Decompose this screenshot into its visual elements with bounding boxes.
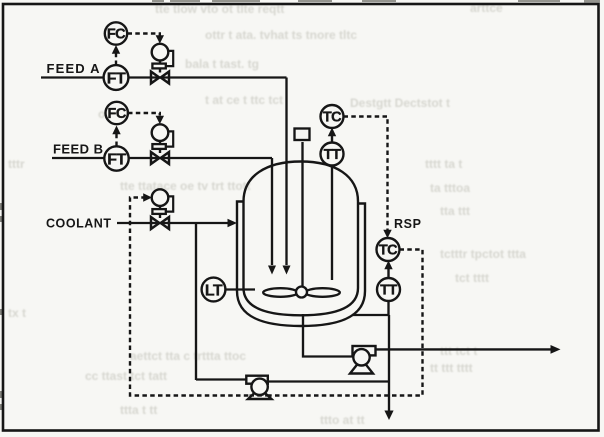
- svg-text:FT: FT: [107, 71, 126, 88]
- reactor vessel shell: [244, 162, 359, 316]
- wire LT tap: [226, 288, 256, 290]
- svg-text:tttr: tttr: [8, 157, 25, 171]
- dashed signal fragment over pump P1 base: [250, 394, 272, 396]
- svg-text:t at ce t ttc tct: t at ce t ttc tct: [205, 93, 283, 107]
- instrument LT level transmitter: [202, 278, 226, 302]
- dashed signal FC2 to valve V2: [128, 113, 160, 116]
- svg-text:FEED B: FEED B: [53, 142, 103, 157]
- svg-text:COOLANT: COOLANT: [46, 217, 111, 231]
- control valve V2 (feed B): [151, 124, 173, 164]
- agitator shaft: [301, 142, 303, 287]
- agitator impeller left blade: [263, 288, 298, 297]
- wire pump P1 discharge: [196, 378, 247, 380]
- instrument FC1: [105, 22, 127, 44]
- svg-text:TC: TC: [379, 243, 398, 259]
- svg-text:tta ttt: tta ttt: [440, 204, 470, 218]
- svg-text:Destgtt Dectstot t: Destgtt Dectstot t: [350, 96, 450, 110]
- control valve V1 (feed A): [151, 44, 173, 84]
- agitator impeller right blade: [305, 288, 340, 297]
- wire feed A horizontal pipe: [41, 76, 287, 78]
- wire pump P2 discharge product line: [376, 348, 553, 350]
- svg-text:TT: TT: [324, 147, 341, 163]
- instrument FC2: [106, 102, 128, 124]
- svg-text:cc ttast tct tatt: cc ttast tct tatt: [85, 369, 167, 383]
- wire reactor bottom outlet: [303, 314, 354, 357]
- svg-text:ta tttoa: ta tttoa: [430, 181, 470, 195]
- svg-text:ttt tct t: ttt tct t: [440, 344, 477, 358]
- cut-off text fragments at very top edge: [152, 0, 600, 3]
- svg-text:tte ttatace oe tv trt ttott: tte ttatace oe tv trt ttott: [120, 179, 251, 193]
- wire coolant supply pipe: [117, 222, 230, 224]
- svg-text:TC: TC: [323, 110, 342, 126]
- svg-text:bala t tast. tg: bala t tast. tg: [185, 57, 259, 71]
- wire feed B horizontal pipe: [52, 157, 272, 159]
- wire TT1 thermowell: [331, 166, 333, 281]
- agitator motor box: [295, 129, 310, 141]
- instrument TT2 jacket temperature transmitter: [377, 278, 400, 301]
- svg-text:TT: TT: [380, 283, 397, 299]
- svg-text:LT: LT: [205, 283, 223, 300]
- dashed signal FT2 to FC2: [115, 133, 117, 146]
- svg-text:tctttr tpctot ttta: tctttr tpctot ttta: [440, 247, 526, 261]
- svg-text:tttt ta t: tttt ta t: [425, 157, 462, 171]
- instrument TC1 master temperature controller: [321, 105, 344, 128]
- pump P2 (product): [350, 346, 376, 374]
- svg-text:aettct tta c trttta ttoc: aettct tta c trttta ttoc: [130, 349, 246, 363]
- dashed signal TC2 to coolant valve V3: [130, 198, 423, 396]
- svg-text:tx t: tx t: [8, 306, 26, 320]
- instrument TT1 reactor temperature transmitter: [321, 143, 344, 166]
- cut-off text fragments at left page margin: [0, 203, 3, 410]
- svg-text:FT: FT: [107, 152, 126, 169]
- svg-text:ttto at tt: ttto at tt: [320, 413, 365, 427]
- arrow TT1 to TC1: [331, 132, 333, 143]
- svg-text:FC: FC: [107, 27, 126, 43]
- svg-text:ottr t ata. tvhat ts tnore tlt: ottr t ata. tvhat ts tnore tltc: [205, 28, 357, 42]
- wire jacket outlet: [352, 314, 389, 316]
- wire coolant recirculation riser: [195, 223, 197, 380]
- arrow feed B into reactor: [268, 266, 276, 275]
- instrument TC2 slave temperature controller: [377, 238, 400, 261]
- control valve V3 (coolant): [151, 189, 173, 229]
- wire feed A downcomer into reactor: [285, 78, 287, 266]
- svg-text:RSP: RSP: [394, 217, 421, 231]
- pump P1 (coolant recirculation): [246, 376, 271, 399]
- instrument FT2: [104, 146, 128, 170]
- svg-text:tct tttt: tct tttt: [455, 271, 489, 285]
- arrow coolant return out bottom: [384, 411, 393, 421]
- dashed signal FT1 to FC1: [115, 53, 117, 66]
- arrow feed A into reactor: [283, 266, 291, 275]
- svg-text:tt ttt tttt: tt ttt tttt: [430, 361, 473, 375]
- arrow coolant into jacket: [228, 219, 238, 228]
- wire TT2 tap: [387, 301, 389, 315]
- arrow TT2 to TC2: [387, 266, 389, 278]
- arrow product out: [551, 345, 561, 354]
- cooling jacket: [237, 202, 365, 327]
- dashed signal TC1 master to TC2 remote setpoint: [344, 117, 388, 231]
- wire feed B downcomer into reactor: [271, 158, 273, 265]
- wire jacket return downpipe: [388, 315, 390, 411]
- agitator hub: [296, 287, 307, 298]
- svg-text:ttta t tt: ttta t tt: [120, 403, 157, 417]
- svg-text:FC: FC: [108, 106, 127, 122]
- instrument FT1: [104, 65, 129, 90]
- dashed signal FC1 to valve V1: [128, 34, 160, 36]
- wire pump P1 suction: [268, 380, 389, 382]
